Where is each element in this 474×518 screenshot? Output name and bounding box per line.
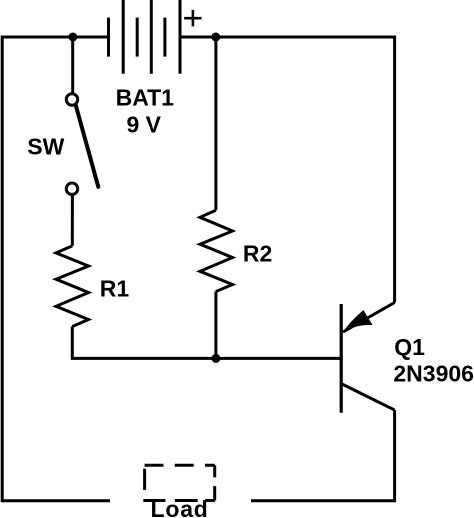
transistor Q1 collector lead	[342, 384, 395, 410]
switch SW blade	[76, 105, 99, 187]
wire (top-right vertical rail down to emitter)	[393, 36, 396, 303]
svg-text:R2: R2	[243, 240, 272, 266]
wire (R2 bottom down to base wire)	[214, 292, 217, 359]
svg-text:BAT1: BAT1	[116, 85, 175, 111]
svg-text:9 V: 9 V	[127, 112, 162, 138]
battery BAT1 short plate 3	[163, 18, 166, 57]
battery BAT1 long plate 2	[150, 0, 153, 74]
wire (R1 bottom down, then right to transistor base)	[72, 327, 341, 359]
node (R2 / base wire junction)	[211, 354, 220, 363]
svg-text:R1: R1	[100, 275, 130, 301]
node (battery negative / switch junction)	[68, 33, 77, 42]
resistor R2	[200, 210, 233, 291]
wire (collector down right rail to bottom)	[393, 410, 396, 502]
switch SW top terminal circle	[66, 94, 78, 106]
battery polarity + sign	[184, 10, 201, 27]
battery BAT1 long plate 1	[122, 0, 125, 74]
battery BAT1 short plate 2	[136, 18, 139, 57]
node (battery positive / R2 junction)	[211, 33, 220, 42]
transistor Q1 emitter lead	[343, 303, 395, 333]
wire (battery positive to top-right corner)	[180, 36, 395, 39]
svg-text:SW: SW	[27, 133, 64, 159]
svg-text:2N3906: 2N3906	[393, 360, 474, 386]
transistor Q1 emitter arrowhead (PNP, points into base)	[344, 311, 371, 331]
svg-text:Q1: Q1	[394, 334, 425, 360]
switch SW bottom terminal circle	[66, 183, 78, 195]
resistor R1	[56, 246, 89, 327]
wire (top-left horizontal from left rail to battery negative plate)	[2, 36, 110, 39]
battery BAT1 short plate 1	[107, 18, 110, 57]
wire (junction down to switch top terminal)	[71, 37, 74, 94]
wire (bottom-right horizontal to load)	[251, 499, 395, 502]
wire (R2 top from junction down)	[214, 37, 217, 210]
transistor Q1 base bar	[340, 304, 343, 413]
battery BAT1 long plate 3	[179, 0, 182, 74]
wire (switch bottom to R1 top)	[71, 196, 74, 246]
load box (dashed)	[143, 465, 214, 500]
wire (left vertical rail)	[1, 36, 4, 503]
svg-text:Load: Load	[151, 496, 209, 518]
wire (bottom-left horizontal from left rail to load)	[2, 499, 110, 502]
